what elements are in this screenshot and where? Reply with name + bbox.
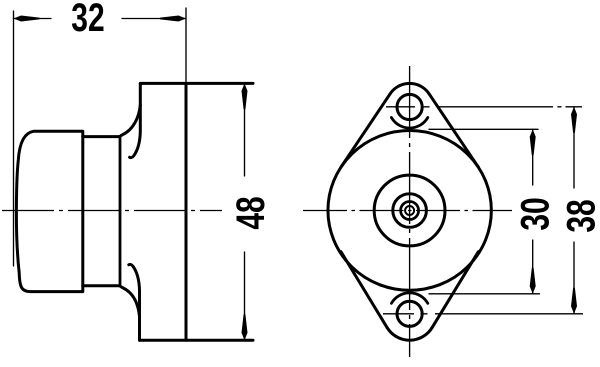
dim 48 line bottom segment bbox=[244, 252, 246, 340]
dim 38 arrow bottom bbox=[571, 288, 577, 314]
dim 30 arrow top bbox=[530, 129, 536, 155]
dim 48 arrow top bbox=[242, 83, 248, 109]
body middle section right edge bbox=[119, 137, 122, 286]
dim 30 bottom extension line bbox=[429, 293, 540, 295]
flange outline left upper tangent bbox=[341, 94, 390, 167]
center screw circle bbox=[405, 206, 414, 215]
flange bottom edge bbox=[140, 339, 254, 342]
body middle section top edge bbox=[83, 135, 120, 138]
flange outline right lower tangent bbox=[432, 252, 478, 328]
inner circle r9 bbox=[401, 202, 419, 220]
dim 32 extension line left bbox=[13, 11, 15, 266]
top mounting hole bbox=[397, 94, 422, 119]
top hole washer arc bbox=[391, 118, 427, 129]
dim 30 arrow bottom bbox=[530, 268, 536, 294]
inner circle r35 bbox=[374, 175, 445, 246]
svg-text:48: 48 bbox=[229, 196, 273, 229]
flange outline left lower tangent bbox=[341, 252, 387, 328]
flange outline bottom vertex arc bbox=[387, 327, 432, 340]
dim 32 arrow left bbox=[14, 16, 40, 22]
centerline horizontal left view bbox=[2, 210, 222, 212]
svg-text:38: 38 bbox=[559, 199, 600, 232]
dim 30 top extension line bbox=[429, 128, 538, 130]
dim 38 line top segment bbox=[573, 107, 575, 188]
centerline vertical right view bbox=[409, 66, 411, 357]
flange top edge bbox=[140, 82, 253, 85]
bottom hole washer arc bbox=[391, 293, 427, 304]
big body circle bbox=[328, 131, 491, 291]
dim 30 line bottom segment bbox=[532, 240, 534, 294]
svg-text:30: 30 bbox=[513, 197, 557, 230]
bottom hole centerline / dim 38 bottom extension bbox=[383, 313, 583, 315]
dim 38 arrow top bbox=[571, 107, 577, 133]
dim 48 line top segment bbox=[244, 83, 246, 176]
flange left edge with bottom fillet bbox=[120, 286, 140, 317]
dim 32 line right segment bbox=[122, 18, 186, 20]
top hole centerline / dim 38 top extension bbox=[386, 106, 582, 108]
flange left edge with rubber lip curl upper bbox=[130, 83, 141, 157]
body middle section bottom edge bbox=[83, 284, 120, 287]
dim 38 line bottom segment bbox=[573, 242, 575, 314]
flange right edge bbox=[185, 83, 188, 340]
centerline horizontal right view bbox=[303, 210, 512, 212]
flange outline top vertex arc bbox=[390, 83, 429, 94]
dim 32 line left segment bbox=[14, 18, 52, 20]
flange left edge with top fillet bbox=[120, 105, 140, 137]
dim 30 line top segment bbox=[532, 129, 534, 185]
inner circle r17 bbox=[393, 194, 427, 228]
svg-text:32: 32 bbox=[71, 0, 104, 40]
flange left edge with rubber lip curl lower bbox=[129, 264, 140, 340]
lens cap outline bbox=[16, 131, 82, 291]
flange outline right upper tangent bbox=[429, 94, 478, 167]
dim 32 extension line right bbox=[185, 8, 187, 83]
bottom mounting hole bbox=[397, 301, 422, 326]
dim 48 arrow bottom bbox=[242, 314, 248, 340]
dim 32 arrow right bbox=[160, 16, 186, 22]
